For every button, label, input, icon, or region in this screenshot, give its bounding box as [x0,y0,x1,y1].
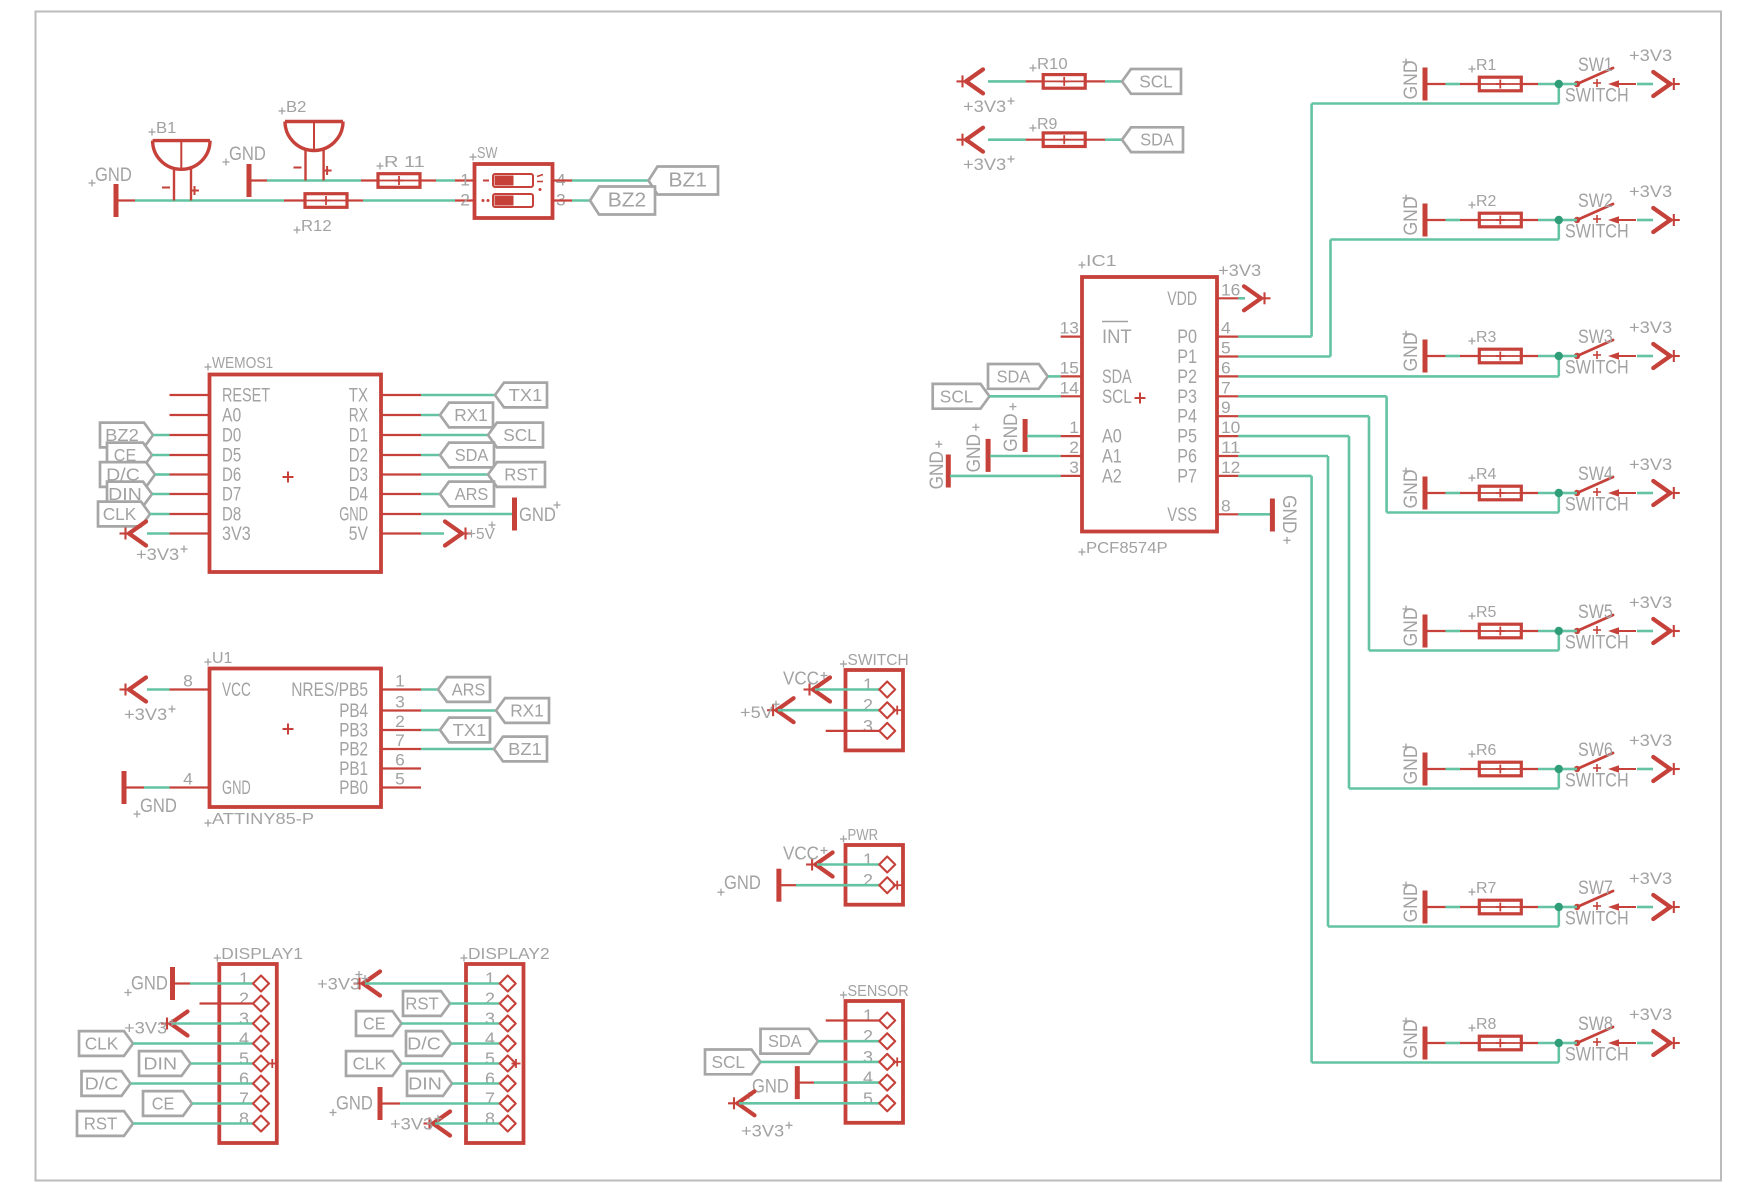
svg-text:GND: GND [1400,470,1422,509]
svg-text:RX: RX [349,406,368,427]
svg-text:GND: GND [1400,1020,1422,1059]
svg-text:+3V3: +3V3 [1218,261,1261,280]
svg-text:CE: CE [152,1094,174,1114]
ground GND (B1 net) [89,165,132,217]
svg-text:VSS: VSS [1167,505,1197,526]
svg-text:GND: GND [1400,61,1422,100]
wire row 2 to IC1 [1238,220,1558,357]
ground GND (row 3) [1400,331,1425,373]
svg-text:SW5: SW5 [1578,602,1613,623]
svg-text:P5: P5 [1177,427,1197,448]
svg-text:8: 8 [183,672,193,691]
svg-text:P3: P3 [1177,387,1197,408]
svg-text:6: 6 [395,751,405,770]
ground GND (row 5) [1400,606,1425,648]
svg-text:D1: D1 [349,426,368,447]
svg-text:TX1: TX1 [509,385,543,405]
svg-text:GND: GND [339,505,368,526]
switch SW8 [1565,1014,1636,1066]
net label CE (wemos D5) [107,443,170,468]
svg-text:SCL: SCL [940,386,974,406]
ground GND (IC1 A1) [964,424,1061,473]
ground GND (row 4) [1400,468,1425,510]
net label ARS (U1 PB5) [421,677,490,702]
svg-text:CE: CE [363,1014,385,1034]
power VCC (pwr pin1) [783,844,881,877]
svg-text:GND: GND [1001,413,1022,451]
svg-text:8: 8 [1221,496,1231,515]
svg-text:GND: GND [131,974,168,995]
buzzer B2 [279,99,344,181]
svg-text:SDA: SDA [1140,130,1174,150]
svg-text:RST: RST [504,465,538,485]
net label TX1 (U1 PB3) [421,718,490,743]
svg-text:A1: A1 [1102,447,1122,468]
net label SCL (wemos D1) [421,423,543,448]
net label CE (display1 pin7) [143,1091,255,1116]
svg-text:D/C: D/C [407,1034,441,1054]
svg-text:GND: GND [752,1077,789,1098]
switch SW3 [1565,327,1636,379]
svg-text:DIN: DIN [408,1074,442,1094]
svg-text:GND: GND [1400,608,1422,647]
power +3V3 (sensor pin5) [728,1091,881,1140]
wire row 8 right [1563,1042,1653,1045]
svg-text:5: 5 [395,770,405,789]
svg-text:1: 1 [460,171,470,190]
svg-text:6: 6 [485,1069,495,1089]
connector DISPLAY2 [461,946,550,1143]
svg-text:A0: A0 [222,406,241,427]
svg-text:A0: A0 [1102,427,1122,448]
svg-text:PB3: PB3 [339,721,368,742]
svg-text:SWITCH: SWITCH [848,652,909,669]
wire row 7 to IC1 [1238,456,1558,927]
net label D/C (display2 pin4) [406,1031,502,1056]
net label SDA (wemos D2) [421,443,494,468]
svg-text:3: 3 [1069,458,1079,477]
svg-text:RX1: RX1 [510,701,544,721]
svg-text:8: 8 [485,1109,495,1129]
svg-text:1: 1 [863,850,873,870]
svg-text:SW: SW [477,145,498,162]
svg-text:SW6: SW6 [1578,740,1613,761]
net label DIN (display2 pin6) [407,1071,502,1096]
ground GND (U1) [124,771,177,818]
svg-text:SCL: SCL [711,1052,745,1072]
net label DIN (display1 pin5) [139,1051,255,1076]
svg-text:PB0: PB0 [339,778,368,799]
svg-text:R8: R8 [1476,1016,1497,1033]
junction row 6 [1555,765,1563,773]
ground GND (row 1) [1400,59,1425,101]
junction row 5 [1555,627,1563,635]
svg-text:7: 7 [239,1089,249,1109]
svg-text:U1: U1 [212,650,233,667]
wire row 1 left [1425,83,1559,85]
svg-text:SDA: SDA [768,1031,802,1051]
ground GND (IC1 A2) [927,441,1061,490]
resistor R2 [1469,193,1522,227]
svg-text:GND: GND [927,451,948,489]
svg-text:4: 4 [239,1029,249,1049]
svg-text:3V3: 3V3 [222,524,251,545]
wire R10-SCL [1105,80,1122,83]
svg-text:9: 9 [1221,398,1231,417]
svg-text:P1: P1 [1177,347,1197,368]
power +3V3 (row 2) [1629,182,1680,232]
connector SWITCH [826,652,909,750]
wire row 6 right [1563,768,1653,771]
wire row 1 right [1563,83,1653,86]
junction row 2 [1555,216,1563,224]
svg-text:16: 16 [1221,280,1240,299]
svg-text:5: 5 [239,1049,249,1069]
svg-text:+3V3: +3V3 [741,1121,784,1140]
svg-text:4: 4 [183,770,193,789]
svg-text:5: 5 [485,1049,495,1069]
ground GND (IC1 VSS) [1238,495,1299,544]
svg-text:PB2: PB2 [339,740,368,761]
power +3V3 (row 5) [1629,593,1680,643]
svg-text:TX: TX [349,386,368,407]
wire row 5 right [1563,630,1653,633]
svg-text:12: 12 [1221,458,1240,477]
junction row 3 [1555,352,1563,360]
wire row 6 to IC1 [1238,436,1558,788]
svg-text:SWITCH: SWITCH [1565,86,1629,107]
svg-text:+3V3: +3V3 [390,1115,433,1134]
resistor R4 [1469,466,1522,500]
power +3V3 (display1 pin3) [124,1012,255,1038]
power +3V3 (row 3) [1629,318,1680,368]
net label RST (wemos D3) [421,462,545,487]
svg-text:SCL: SCL [1102,387,1132,408]
svg-text:PWR: PWR [848,827,879,844]
svg-text:SDA: SDA [1102,367,1132,388]
svg-text:D4: D4 [349,485,369,506]
wire row 5 left [1425,630,1559,632]
power +3V3 (display2 pin1) [317,971,502,996]
svg-text:D8: D8 [222,505,241,526]
svg-text:CLK: CLK [352,1054,386,1074]
svg-text:SENSOR: SENSOR [848,983,909,1000]
wire row 8 to IC1 [1238,476,1558,1063]
svg-text:PB4: PB4 [339,701,368,722]
net label RX1 (U1 PB4) [421,698,549,723]
svg-text:DISPLAY2: DISPLAY2 [468,946,550,963]
svg-text:R3: R3 [1476,329,1497,346]
svg-text:R9: R9 [1037,116,1058,133]
svg-text:GND: GND [95,165,132,186]
svg-text:A2: A2 [1102,466,1122,487]
svg-text:DISPLAY1: DISPLAY1 [221,946,303,963]
svg-text:PCF8574P: PCF8574P [1086,540,1168,557]
net label SDA (IC1) [988,364,1061,389]
power +3V3 (row 1) [1629,46,1680,96]
svg-text:SW1: SW1 [1578,55,1613,76]
svg-text:7: 7 [395,731,405,750]
microcontroller WEMOS1 [170,355,422,572]
svg-text:+3V3: +3V3 [317,975,360,994]
power +3V3 (wemos) [120,522,188,565]
svg-text:R 11: R 11 [384,154,425,171]
resistor R3 [1469,329,1522,363]
wire row 5 to IC1 [1238,416,1558,650]
svg-text:2: 2 [863,695,873,715]
svg-text:4: 4 [863,1068,873,1088]
svg-text:D5: D5 [222,446,241,467]
svg-text:+3V3: +3V3 [1629,869,1672,888]
svg-text:VCC: VCC [222,680,251,701]
svg-text:R1: R1 [1476,57,1497,74]
svg-text:P0: P0 [1177,327,1197,348]
power +5V (wemos) [421,522,496,546]
svg-text:GND: GND [964,434,985,472]
svg-text:+5V: +5V [740,703,774,722]
svg-text:1: 1 [863,675,873,695]
net label BZ2 [590,187,655,215]
svg-text:GND: GND [222,778,251,799]
svg-text:BZ1: BZ1 [669,170,707,192]
svg-text:RESET: RESET [222,386,270,407]
svg-text:D6: D6 [222,465,241,486]
svg-text:WEMOS1: WEMOS1 [212,355,273,372]
wire row 3 left [1425,355,1559,357]
net label BZ1 [649,167,719,195]
svg-text:CLK: CLK [85,1034,119,1054]
net label SDA (sensor pin2) [761,1029,882,1054]
svg-text:ARS: ARS [452,680,486,700]
wire row 2 left [1425,219,1559,221]
power VCC (switch pin1) [783,669,881,702]
pins DISPLAY1 [253,976,277,1132]
svg-text:B1: B1 [156,120,176,137]
svg-text:P7: P7 [1177,466,1197,487]
switch SW1 [1565,55,1636,107]
svg-text:SCL: SCL [503,425,537,445]
junction row 4 [1555,489,1563,497]
power +3V3 (R10) [957,69,1026,116]
svg-text:ARS: ARS [455,484,489,504]
dip-switch SW [460,145,565,218]
pins DISPLAY2 [500,976,521,1132]
power +3V3 (R9) [957,128,1026,174]
svg-text:R12: R12 [301,218,332,235]
svg-text:10: 10 [1221,418,1240,437]
svg-text:4: 4 [485,1029,495,1049]
power +3V3 (row 6) [1629,731,1680,781]
svg-text:1: 1 [395,672,405,691]
junction row 1 [1555,80,1563,88]
svg-text:BZ2: BZ2 [608,190,646,212]
pins PWR [879,857,902,894]
svg-text:2: 2 [863,1026,873,1046]
net label ARS (wemos D4) [421,482,494,507]
net label RST (display2 pin2) [403,991,502,1016]
svg-text:3: 3 [863,1047,873,1067]
svg-text:2: 2 [460,191,470,210]
svg-text:GND: GND [1400,884,1422,923]
net label DIN (wemos D7) [107,482,170,507]
svg-text:2: 2 [239,989,249,1009]
svg-text:3: 3 [239,1009,249,1029]
net label SCL (R10) [1122,69,1181,94]
wire R9-SDA [1105,138,1122,141]
svg-text:SDA: SDA [455,445,489,465]
resistor R10 [1026,56,1105,88]
svg-text:SW4: SW4 [1578,464,1613,485]
svg-text:D7: D7 [222,485,241,506]
svg-text:GND: GND [336,1094,373,1115]
svg-text:SWITCH: SWITCH [1565,495,1629,516]
power +3V3 (row 7) [1629,869,1680,919]
svg-text:1: 1 [863,1006,873,1026]
svg-text:D2: D2 [349,446,368,467]
svg-text:2: 2 [1069,438,1079,457]
ground GND (row 7) [1400,882,1425,924]
svg-text:3: 3 [485,1009,495,1029]
svg-text:VCC: VCC [783,669,819,689]
svg-text:IC1: IC1 [1086,253,1117,270]
svg-text:R7: R7 [1476,880,1497,897]
ground GND (row 6) [1400,744,1425,786]
ground GND (row 8) [1400,1018,1425,1060]
net label D/C (wemos D6) [100,462,170,487]
microcontroller U1 [170,650,422,828]
svg-text:+3V3: +3V3 [1629,1005,1672,1024]
resistor R8 [1469,1016,1522,1050]
ground GND (B2 net) [223,144,266,197]
svg-text:P2: P2 [1177,367,1197,388]
svg-text:+3V3: +3V3 [136,545,179,564]
svg-text:SCL: SCL [1139,71,1173,91]
ground GND (row 2) [1400,195,1425,237]
net label SDA (R9) [1122,127,1183,152]
connector PWR [840,827,903,905]
svg-text:4: 4 [1221,319,1231,338]
wire row 4 left [1425,492,1559,494]
wire row 8 left [1425,1042,1559,1044]
svg-text:VDD: VDD [1167,289,1197,310]
wire row 2 right [1563,219,1653,222]
power +3V3 (row 8) [1629,1005,1680,1055]
svg-text:13: 13 [1060,319,1079,338]
svg-text:GND: GND [140,796,177,817]
svg-text:1: 1 [1069,418,1079,437]
wire row 4 to IC1 [1238,396,1558,512]
svg-text:GND: GND [1400,746,1422,785]
svg-text:NRES/PB5: NRES/PB5 [291,680,368,701]
wire SW pin3 to BZ2 [553,199,591,201]
svg-text:SWITCH: SWITCH [1565,633,1629,654]
svg-text:+3V3: +3V3 [963,97,1006,116]
pins SWITCH [879,682,902,739]
svg-text:+3V3: +3V3 [963,155,1006,174]
svg-text:RX1: RX1 [454,405,488,425]
net label SCL (sensor pin3) [705,1050,881,1075]
svg-text:5V: 5V [349,524,368,545]
junction row 7 [1555,903,1563,911]
svg-text:7: 7 [1221,378,1231,397]
net label D/C (display1 pin6) [82,1071,256,1096]
connector SENSOR [826,983,909,1123]
svg-text:TX1: TX1 [453,720,487,740]
pins SENSOR [879,1013,902,1112]
svg-text:SDA: SDA [997,366,1031,386]
svg-text:VCC: VCC [783,844,819,864]
resistor R11 [377,154,425,187]
svg-text:SW8: SW8 [1578,1014,1613,1035]
net label RX1 (wemos RX) [421,403,493,428]
svg-text:D0: D0 [222,426,241,447]
ground GND (pwr pin2) [718,869,882,902]
net label BZ1 (U1 PB2) [421,737,547,762]
resistor R6 [1469,742,1522,776]
svg-text:1: 1 [485,969,495,989]
resistor R5 [1469,604,1522,638]
net label CLK (display2 pin5) [346,1051,502,1076]
svg-text:7: 7 [485,1089,495,1109]
svg-text:RST: RST [405,994,439,1014]
svg-text:P4: P4 [1177,407,1197,428]
switch SW7 [1565,878,1636,930]
IO expander IC1 [1060,253,1241,557]
resistor R12 [294,194,348,235]
resistor R7 [1469,880,1522,914]
svg-text:8: 8 [239,1109,249,1129]
net label CLK (wemos D8) [98,502,170,527]
svg-text:SW3: SW3 [1578,327,1613,348]
svg-text:+5V: +5V [467,526,495,543]
svg-text:+3V3: +3V3 [1629,731,1672,750]
svg-text:3: 3 [395,693,405,712]
svg-text:GND: GND [1400,333,1422,372]
svg-text:ATTINY85-P: ATTINY85-P [212,811,314,828]
svg-text:15: 15 [1060,358,1079,377]
resistor R1 [1469,57,1522,91]
svg-text:3: 3 [863,716,873,736]
svg-text:INT: INT [1102,327,1132,348]
svg-text:1: 1 [239,969,249,989]
power +3V3 (row 4) [1629,455,1680,505]
svg-text:SW7: SW7 [1578,878,1613,899]
ground GND (wemos) [421,498,561,531]
svg-text:GND: GND [724,873,761,894]
power +3V3 (U1 VCC) [120,678,176,725]
svg-text:SWITCH: SWITCH [1565,358,1629,379]
wire upper net [249,179,475,181]
svg-text:2: 2 [863,870,873,890]
wire row 3 to IC1 [1238,356,1558,376]
ground GND (display1 pin1) [125,967,256,1000]
ground GND (sensor pin4) [746,1066,882,1099]
svg-text:GND: GND [1400,197,1422,236]
svg-text:+3V3: +3V3 [124,705,167,724]
svg-text:R6: R6 [1476,742,1497,759]
net label CLK (display1 pin4) [79,1031,255,1056]
wire row 3 right [1563,355,1653,358]
wire SW pin4 to BZ1 [553,179,649,181]
svg-text:2: 2 [395,712,405,731]
svg-text:+3V3: +3V3 [1629,318,1672,337]
svg-text:BZ1: BZ1 [508,739,542,759]
svg-text:SWITCH: SWITCH [1565,909,1629,930]
svg-text:11: 11 [1221,438,1240,457]
power +3V3 (display2 pin8) [390,1112,502,1136]
svg-text:SWITCH: SWITCH [1565,771,1629,792]
svg-text:GND: GND [519,505,556,526]
